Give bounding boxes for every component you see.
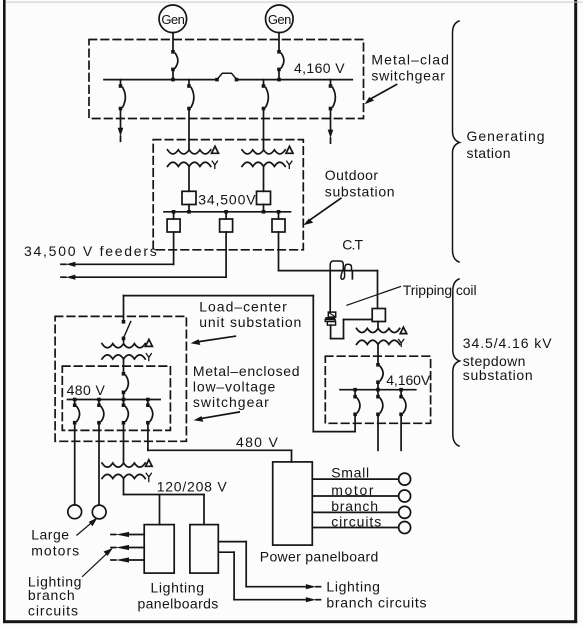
transformer T2 delta-wye xyxy=(242,150,285,154)
wire square to stepdown transformer xyxy=(377,322,379,329)
C.T. secondary lead to tripping coil xyxy=(329,271,331,312)
svg-text:switchgear: switchgear xyxy=(371,68,445,84)
small motor circuit 2 xyxy=(312,495,398,497)
motor M2 circle xyxy=(92,505,106,519)
480V bus xyxy=(68,399,161,401)
feeder 2 wire xyxy=(225,232,227,277)
feeder breaker to transformer T1 xyxy=(188,80,190,86)
small motor circuit 3 xyxy=(312,511,398,513)
disconnect switch xyxy=(122,320,126,324)
svg-text:substation: substation xyxy=(463,367,534,383)
svg-text:motor: motor xyxy=(331,482,375,498)
wire 4160V feeder to load-center xyxy=(354,415,356,432)
trip circuit return wire xyxy=(330,325,332,339)
480V feeder breaker 3 xyxy=(122,398,126,402)
feeder breaker on 4160V bus (far right) xyxy=(330,80,332,86)
wire transformer to lighting feed xyxy=(123,479,125,495)
outgoing arrow A xyxy=(306,584,316,589)
callout arrow to branch arrows xyxy=(83,554,107,577)
wire to lighting panelboard 2 xyxy=(203,495,205,525)
svg-text:Gen: Gen xyxy=(268,12,291,27)
wire breaker to T1 xyxy=(188,109,190,150)
load-center substation dashed enclosure xyxy=(55,316,186,441)
breaker square under T1 xyxy=(182,191,196,204)
svg-text:480 V: 480 V xyxy=(236,434,279,450)
wire to motor M1 xyxy=(74,423,76,505)
small motor circuit 4 xyxy=(312,527,398,529)
svg-text:4,160 V: 4,160 V xyxy=(294,60,345,76)
svg-text:circuits: circuits xyxy=(28,602,79,618)
wire breaker to bus xyxy=(172,70,174,80)
svg-text:circuits: circuits xyxy=(331,513,382,529)
wire breaker to bus xyxy=(278,70,280,80)
outdoor substation dashed enclosure xyxy=(153,140,303,250)
feeder 1 wire xyxy=(173,232,175,264)
svg-text:4,160V: 4,160V xyxy=(386,372,431,388)
34,500V bus xyxy=(164,211,291,213)
480V feeder breaker 4 xyxy=(146,398,150,402)
svg-text:station: station xyxy=(467,145,511,161)
current transformer C.T. loops xyxy=(330,261,343,271)
breaker 52-G1 xyxy=(171,50,175,54)
generator G2 xyxy=(266,5,294,33)
feeder square F3 xyxy=(277,210,281,214)
wire C.T. line down to breaker square xyxy=(377,271,379,309)
callout arrow to motor M2 xyxy=(77,522,93,536)
lighting branch arrow 1 xyxy=(129,534,144,536)
feeder breaker to transformer T2 xyxy=(263,80,265,86)
480V feeder breaker 1 xyxy=(73,398,77,402)
svg-text:34,500 V feeders: 34,500 V feeders xyxy=(24,243,158,259)
wire breaker to T2 xyxy=(263,109,265,150)
metal-clad switchgear dashed enclosure xyxy=(89,40,364,119)
generator G1 xyxy=(159,5,187,33)
feeder square F2 xyxy=(224,210,228,214)
svg-text:Power panelboard: Power panelboard xyxy=(260,548,379,564)
svg-text:panelboards: panelboards xyxy=(138,595,219,611)
4160V bus xyxy=(340,389,416,391)
svg-text:motors: motors xyxy=(31,543,80,559)
svg-text:34.5/4.16 kV: 34.5/4.16 kV xyxy=(463,335,553,351)
panel 2 outgoing wire A xyxy=(218,541,246,543)
breaker 52-G2 xyxy=(277,50,281,54)
lighting panelboard 1 xyxy=(144,525,174,574)
wire to 4160V bus xyxy=(377,382,379,389)
svg-text:Generating: Generating xyxy=(467,128,546,144)
svg-text:34,500V: 34,500V xyxy=(198,191,256,207)
feeder breaker on 4160V bus (far left) xyxy=(120,80,122,86)
4160V feeder breaker right xyxy=(399,388,403,392)
wire to 34500V bus xyxy=(188,205,190,212)
incoming breaker 4160V xyxy=(376,363,380,367)
4160V feeder breaker left xyxy=(353,388,357,392)
callout arrow to outdoor box xyxy=(309,198,341,221)
feeder 1 arrow xyxy=(66,262,76,267)
wire to motor M2 xyxy=(98,423,100,505)
panel 2 outgoing wire B xyxy=(218,551,234,553)
feeder 2 arrow xyxy=(66,275,76,280)
breaker square 34.5kV side xyxy=(372,309,385,322)
svg-text:C.T: C.T xyxy=(342,237,363,253)
lighting branch arrow 2 xyxy=(129,547,144,549)
svg-text:branch: branch xyxy=(331,498,379,514)
wire to lighting panelboard 1 xyxy=(159,495,161,525)
callout line to tripping coil xyxy=(347,287,401,306)
outgoing arrow B xyxy=(306,597,316,602)
border frame xyxy=(3,0,6,623)
motor M1 circle xyxy=(68,505,82,519)
wire to 120/208 transformer xyxy=(123,423,125,463)
brace generating station xyxy=(453,21,460,262)
svg-text:branch: branch xyxy=(28,587,76,603)
outgoing feeder arrow (right) xyxy=(330,109,332,130)
lighting feed bus xyxy=(124,494,205,496)
svg-text:low–voltage: low–voltage xyxy=(193,379,276,395)
120/208 transformer delta-wye xyxy=(102,463,145,467)
feeder 3 wire to C.T. xyxy=(278,232,280,271)
bus tie breaker xyxy=(215,78,219,82)
callout arrow to load-center box xyxy=(197,336,236,342)
svg-text:Gen: Gen xyxy=(161,12,184,27)
svg-text:Load–center: Load–center xyxy=(199,299,288,315)
callout arrow to metal-clad box xyxy=(370,85,397,100)
svg-text:Tripping coil: Tripping coil xyxy=(403,282,477,298)
feeder square F1 xyxy=(172,210,176,214)
wire transformer to 4160V switchgear xyxy=(377,344,379,364)
wire T2 secondary to breaker xyxy=(263,166,265,191)
svg-text:480 V: 480 V xyxy=(67,382,106,398)
wire G2 to breaker xyxy=(278,33,280,52)
C.T. secondary lead (right stub) xyxy=(351,271,353,279)
svg-text:Metal–enclosed: Metal–enclosed xyxy=(193,363,300,379)
svg-text:switchgear: switchgear xyxy=(193,394,270,410)
4160V outgoing feeder right xyxy=(400,415,402,451)
480V feeder breaker 2 xyxy=(97,398,101,402)
svg-text:Outdoor: Outdoor xyxy=(325,167,379,183)
480V wire to power panelboard xyxy=(147,423,149,450)
lighting panelboard 2 xyxy=(190,525,218,574)
wire to 480V bus xyxy=(123,393,125,400)
svg-text:substation: substation xyxy=(325,183,395,199)
4160V switchgear dashed enclosure xyxy=(325,356,430,423)
metal-enclosed switchgear dashed enclosure xyxy=(62,366,170,430)
svg-text:unit substation: unit substation xyxy=(199,314,302,330)
breaker square under T2 xyxy=(257,191,271,204)
load-center transformer delta-wye xyxy=(102,344,145,348)
wire to 34500V bus xyxy=(263,205,265,212)
svg-text:Metal–clad: Metal–clad xyxy=(371,52,450,68)
svg-text:Lighting: Lighting xyxy=(326,578,380,594)
brace stepdown substation xyxy=(453,279,460,446)
svg-text:branch circuits: branch circuits xyxy=(326,595,427,611)
wire transformer to main breaker xyxy=(123,359,125,374)
4160V generator bus (left section) xyxy=(104,79,217,81)
wire G1 to breaker xyxy=(172,33,174,52)
4160V feeder breaker middle xyxy=(377,390,379,397)
outgoing feeder arrow (left) xyxy=(120,109,122,128)
transformer T1 delta-wye xyxy=(168,150,211,154)
4160V generator bus (right section) xyxy=(237,79,353,81)
svg-text:Small: Small xyxy=(331,464,370,480)
main breaker 480V xyxy=(122,372,126,376)
power panelboard xyxy=(273,462,313,545)
wire T1 secondary to breaker xyxy=(188,166,190,191)
svg-text:Lighting: Lighting xyxy=(151,580,205,596)
callout arrow to metal-enclosed box xyxy=(200,412,240,419)
lighting branch arrow 3 xyxy=(129,559,144,561)
small motor circuit 1 xyxy=(312,478,398,480)
4160V outgoing feeder middle xyxy=(377,415,379,451)
svg-text:Large: Large xyxy=(31,527,69,543)
tripping coil xyxy=(328,312,335,317)
stepdown transformer 34.5/4.16 delta-wye xyxy=(357,328,400,332)
svg-text:120/208 V: 120/208 V xyxy=(157,478,228,494)
